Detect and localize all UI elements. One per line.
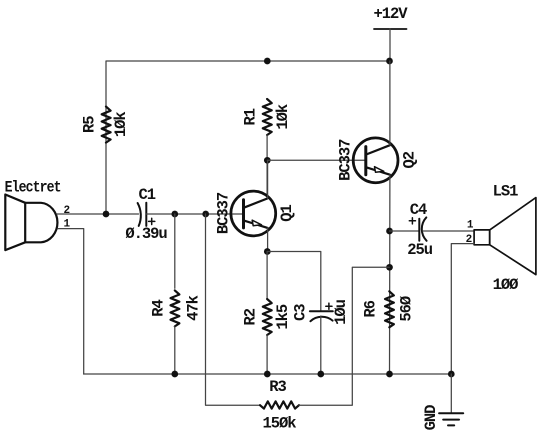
svg-text:R6: R6: [362, 300, 380, 317]
node rail C3: [317, 371, 324, 378]
svg-text:2: 2: [466, 234, 472, 246]
svg-text:Ø.39u: Ø.39u: [125, 225, 167, 243]
power +12V: [373, 5, 408, 61]
wire C1 to Q1 base: [146, 213, 243, 215]
transistor Q1: [231, 191, 276, 236]
svg-text:1Øk: 1Øk: [274, 104, 292, 130]
svg-text:BC337: BC337: [215, 192, 233, 234]
node rail R4: [171, 371, 178, 378]
wire Q1 collector up: [267, 160, 269, 198]
svg-text:R3: R3: [269, 378, 286, 396]
node top rail / R1: [264, 58, 271, 65]
wire mic pin1 down to ground rail: [58, 229, 84, 374]
svg-text:1k5: 1k5: [274, 304, 292, 330]
node R4 branch: [171, 211, 178, 218]
wire emitter node to C3: [267, 252, 321, 312]
resistor R4: [171, 290, 180, 326]
wire R4 lower lead: [174, 326, 176, 374]
svg-text:R5: R5: [81, 116, 99, 133]
wire mic pin2 to C1: [57, 213, 139, 215]
wire C4 to LS1 pin1: [423, 230, 474, 232]
svg-text:1Øk: 1Øk: [112, 112, 130, 138]
resistor R5: [102, 107, 111, 143]
wire Q1 emitter down: [267, 228, 269, 252]
svg-text:47k: 47k: [185, 295, 203, 321]
node top rail / supply: [386, 58, 393, 65]
node rail GND: [448, 371, 455, 378]
svg-text:2: 2: [64, 205, 70, 217]
speaker LS1: [474, 198, 536, 275]
resistor R2: [263, 252, 272, 375]
svg-text:1Øu: 1Øu: [332, 299, 350, 325]
svg-text:1: 1: [467, 219, 474, 231]
wire R3 right lead: [299, 267, 389, 405]
transistor Q2: [353, 138, 398, 183]
wire Q2 collector up: [389, 61, 391, 145]
svg-text:56Ø: 56Ø: [398, 296, 416, 322]
svg-text:1ØØ: 1ØØ: [493, 276, 519, 294]
wire top rail: [106, 61, 390, 214]
wire ground rail: [84, 373, 452, 375]
node rail R2: [264, 371, 271, 378]
resistor R1: [263, 99, 272, 135]
svg-text:Q2: Q2: [401, 151, 419, 168]
svg-text:Q1: Q1: [278, 205, 296, 222]
svg-text:25u: 25u: [407, 241, 433, 259]
node Q1 collector / Q2 base: [264, 157, 271, 164]
node rail R6: [386, 371, 393, 378]
node mic / R5: [103, 211, 110, 218]
wire Q2 emitter down: [389, 175, 391, 374]
svg-text:15Øk: 15Øk: [262, 415, 296, 433]
capacitor C3: [310, 303, 333, 374]
svg-text:Electret: Electret: [5, 180, 61, 197]
svg-text:LS1: LS1: [493, 182, 519, 200]
svg-text:GND: GND: [422, 405, 440, 431]
wire LS1 pin2 to ground rail: [451, 244, 474, 374]
svg-text:C4: C4: [410, 201, 427, 219]
capacitor C4: [409, 217, 426, 240]
svg-text:+12V: +12V: [373, 5, 408, 23]
electret mic MIC1: [5, 195, 57, 251]
resistor R3: [260, 401, 299, 408]
wire Q2 base: [267, 159, 366, 161]
wire R4 upper lead: [174, 214, 176, 288]
node Q1 emitter / R2 / C3: [264, 248, 271, 255]
svg-text:R4: R4: [150, 300, 168, 317]
svg-text:BC337: BC337: [337, 139, 355, 181]
wire C4 from emitter node: [390, 230, 420, 232]
capacitor C1: [138, 203, 155, 226]
node C4 / emitter: [386, 228, 393, 235]
wire R1 to Q1 collector node: [266, 135, 268, 198]
ground GND: [439, 374, 463, 425]
resistor R6: [385, 291, 394, 327]
node R3 branch / Q1 base: [202, 211, 209, 218]
svg-text:C3: C3: [291, 304, 309, 321]
svg-text:R2: R2: [242, 308, 260, 325]
svg-text:C1: C1: [139, 186, 156, 204]
wire R3 left lead: [206, 214, 261, 405]
svg-text:R1: R1: [242, 108, 260, 125]
node R6 top / R3: [386, 264, 393, 271]
